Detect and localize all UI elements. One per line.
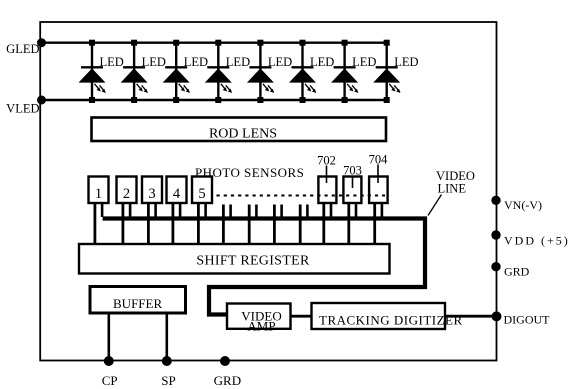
svg-text:LED: LED [100,55,124,69]
svg-text:3: 3 [148,186,155,202]
photo sensor cell (unlabeled) legs [300,205,307,245]
wire SP [166,313,169,361]
node VLED pin dot [37,96,46,105]
svg-text:LED: LED [352,55,376,69]
svg-text:LED: LED [394,55,418,69]
svg-text:CP: CP [102,373,118,388]
wire 703 stub [352,176,354,189]
node GRD bottom pin dot [220,356,230,366]
svg-text:LED: LED [310,55,334,69]
label VLED [6,102,39,116]
node SP pin dot [162,356,172,366]
svg-text:4: 4 [173,186,181,202]
label GLED [6,42,39,56]
svg-text:1: 1 [95,186,102,202]
svg-text:BUFFER: BUFFER [113,296,162,311]
wire 704 stub [377,165,379,184]
svg-text:VN(-V): VN(-V) [504,198,542,212]
svg-text:ROD LENS: ROD LENS [209,127,277,142]
photo sensor cell (unlabeled) legs [249,205,256,245]
photo sensor cell 4 [167,177,187,245]
LED D4 [205,40,250,103]
svg-text:LED: LED [226,55,250,69]
label SP [161,373,175,388]
LED D3 [163,40,208,103]
IC package outline [40,22,496,361]
photo sensor cell 1 [89,177,109,245]
svg-text:GLED: GLED [6,42,39,56]
node DIGOUT pin dot [492,311,502,321]
label CP [102,373,118,388]
svg-text:703: 703 [343,164,362,178]
label DIGOUT [504,313,551,327]
buffer box U2 [90,287,186,314]
rod lens box [92,118,387,142]
video amp box U3 [227,304,291,334]
node CP pin dot [104,356,114,366]
wire VLED bottom rail [40,99,387,101]
photo sensor cell 702 [318,177,336,245]
svg-text:LED: LED [184,55,208,69]
label 703 [343,164,362,178]
svg-text:AMP: AMP [247,318,275,333]
svg-text:SP: SP [161,373,175,388]
photo sensor cell 2 [117,177,137,245]
svg-text:5: 5 [198,186,205,202]
wire 702 stub [326,166,328,184]
label 702 [317,154,336,168]
wire CP [108,313,111,361]
svg-text:SHIFT REGISTER: SHIFT REGISTER [196,254,310,269]
svg-text:DIGOUT: DIGOUT [504,313,551,327]
wire GLED top rail [40,42,387,44]
svg-text:704: 704 [369,153,389,167]
photo sensor cell 703 [343,177,361,245]
LED D1 [79,40,124,103]
photo sensor cell 704 [369,177,388,245]
LED D7 [331,40,376,103]
label VN(-V) [504,198,542,212]
node GRD right pin dot [491,262,500,271]
photo sensor cell 5 [192,177,212,245]
wire video line bus [103,219,425,315]
svg-text:702: 702 [317,154,336,168]
photo sensor cell 3 [142,177,162,245]
LED D8 [373,40,418,103]
node VN pin dot [491,196,500,205]
LED D5 [247,40,292,103]
svg-text:GRD: GRD [504,265,530,279]
label 704 [369,153,389,167]
LED D6 [289,40,334,103]
svg-text:LED: LED [268,55,292,69]
photo sensor cell (unlabeled) legs [274,205,281,245]
label GRD bottom [214,373,241,388]
svg-text:VLED: VLED [6,102,39,116]
svg-text:GRD: GRD [214,373,241,388]
dashed sensor-row continuation line [217,195,386,197]
LED D2 [121,40,166,103]
svg-text:VDD (+5): VDD (+5) [504,234,570,248]
label VIDEO LINE [436,169,475,196]
node GLED pin dot [37,38,46,47]
wire video line pointer [428,195,442,216]
svg-text:TRACKING DIGITIZER: TRACKING DIGITIZER [319,312,463,327]
photo sensor cell (unlabeled) legs [223,205,230,245]
label GRD right [504,265,530,279]
svg-text:LED: LED [142,55,166,69]
wire DIGOUT [445,315,497,318]
node VDD pin dot [491,230,500,239]
shift register box U1 [79,244,390,274]
svg-text:LINE: LINE [438,182,467,196]
label PHOTO SENSORS [195,165,304,180]
wire video amp to tracking digitizer [291,315,312,318]
svg-text:2: 2 [123,186,130,202]
label VDD (+5) [504,234,570,248]
tracking digitizer box U4 [312,303,463,329]
